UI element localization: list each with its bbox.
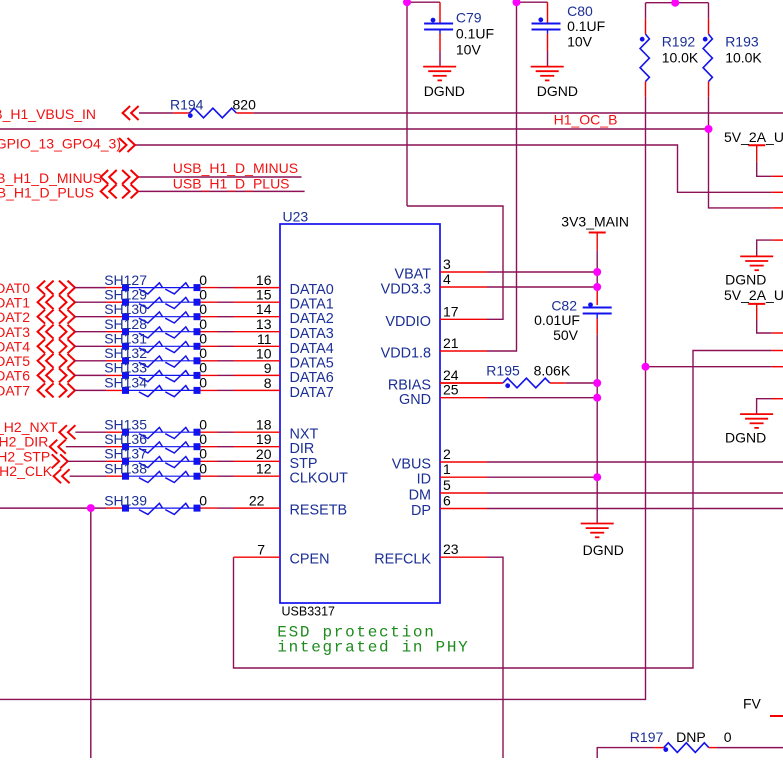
svg-text:DIR: DIR (290, 441, 315, 457)
svg-text:5V_2A_UP: 5V_2A_UP (724, 129, 783, 145)
wire R192 branch red tip (772, 366, 783, 368)
wire USB_H2_DAT0 to shunt (75, 287, 107, 289)
svg-text:0: 0 (199, 446, 207, 462)
svg-text:0: 0 (199, 345, 207, 361)
junction dot VBAT rail (593, 268, 601, 276)
power 3V3_MAIN (589, 232, 606, 234)
svg-text:0: 0 (199, 272, 207, 288)
wire GPIO net red tip at right edge (772, 191, 783, 193)
svg-text:DGND: DGND (725, 272, 766, 288)
ground DGND (C80) (531, 66, 564, 68)
resistor SH130 0 ohm shunt (106, 312, 234, 323)
wire DGND lead #2 from right edge (757, 399, 772, 414)
svg-text:DAT2: DAT2 (0, 309, 30, 325)
svg-text:2: 2 (443, 446, 451, 462)
junction dot C80 tap (513, 0, 521, 6)
svg-text:SH127: SH127 (104, 272, 147, 288)
svg-text:USB_H1_D_MINUS: USB_H1_D_MINUS (173, 160, 298, 176)
svg-text:R197: R197 (630, 729, 664, 745)
svg-text:R193: R193 (725, 33, 759, 49)
wire GND pin to rail (487, 397, 597, 399)
svg-text:R194: R194 (170, 97, 204, 113)
svg-text:6: 6 (443, 493, 451, 509)
junction dot R192 branch (642, 363, 650, 371)
svg-text:21: 21 (443, 335, 459, 351)
pin 12 stub (234, 475, 281, 477)
svg-text:DGND: DGND (725, 429, 766, 445)
svg-text:SH136: SH136 (104, 431, 147, 447)
svg-text:SH133: SH133 (104, 360, 147, 376)
junction dot VDD3.3 rail (593, 283, 601, 291)
node USB_H2_DAT7 port arrow (bidirectional) (38, 383, 46, 397)
svg-text:0: 0 (199, 375, 207, 391)
node USB_H1_D_MINUS port arrow (101, 170, 109, 184)
resistor SH136 0 ohm shunt (106, 442, 234, 453)
svg-text:DATA2: DATA2 (290, 311, 334, 327)
svg-text:USB_H2_CLK: USB_H2_CLK (0, 463, 53, 479)
wire USB_H2_DAT3 to shunt (75, 331, 107, 333)
svg-text:0: 0 (199, 360, 207, 376)
pin 5 stub (DM) (440, 492, 487, 494)
wire R193 net vertical x=708.5 to y=208 exit (709, 3, 772, 208)
wire VBAT to 3V3 rail (487, 271, 597, 273)
svg-text:integrated in PHY: integrated in PHY (277, 639, 469, 657)
svg-text:USB_H1_VBUS_IN: USB_H1_VBUS_IN (0, 106, 96, 122)
svg-text:10: 10 (256, 345, 272, 361)
pin 10 stub (234, 360, 281, 362)
svg-text:DATA0: DATA0 (290, 282, 334, 298)
wire USB_H2_DAT7 to shunt (75, 389, 107, 391)
svg-text:50V: 50V (553, 327, 579, 343)
svg-text:SH132: SH132 (104, 345, 147, 361)
power 5V_2A_U #1 (748, 144, 765, 146)
pin 9 stub (234, 374, 281, 376)
svg-text:0: 0 (199, 301, 207, 317)
pin 1 stub (ID) (440, 476, 487, 478)
svg-text:DGND: DGND (537, 83, 578, 99)
svg-text:DATA6: DATA6 (290, 370, 334, 386)
svg-text:0: 0 (199, 316, 207, 332)
resistor SH129 0 ohm shunt (106, 297, 234, 308)
node USB_H2_DAT3 port arrow (bidirectional) (38, 325, 46, 339)
svg-text:SH130: SH130 (104, 301, 147, 317)
capacitor C80 0.1UF 10V (547, 2, 549, 23)
wire DGND lead #2 red tip (772, 398, 783, 400)
svg-text:820: 820 (233, 97, 257, 113)
wire USB_H2_NXT to shunt (75, 431, 106, 433)
svg-text:5: 5 (443, 477, 451, 493)
pin 14 stub (234, 316, 281, 318)
resistor R192 10.0K (645, 19, 647, 34)
wire VDD3.3 to 3V3 rail (487, 286, 597, 288)
wire 5V_2A power drop #2 (757, 320, 772, 333)
wire RESETB branch down x=90.8 (90, 508, 92, 758)
svg-text:24: 24 (443, 367, 459, 383)
svg-text:DAT7: DAT7 (0, 383, 30, 399)
pin 25 stub (GND) (440, 397, 487, 399)
svg-text:USB_H1_D_PLUS: USB_H1_D_PLUS (0, 184, 94, 200)
node USB_H2_CLK port arrow (54, 469, 62, 483)
node USB_H2_DAT2 port arrow (bidirectional) (38, 310, 46, 324)
svg-text:DAT3: DAT3 (0, 324, 30, 340)
svg-text:DAT0: DAT0 (0, 280, 30, 296)
svg-text:H1_OC_B: H1_OC_B (554, 112, 618, 128)
svg-text:SH137: SH137 (104, 446, 147, 462)
node USB_H2_DAT5 port arrow (bidirectional) (38, 354, 46, 368)
resistor R193 10.0K (708, 19, 710, 34)
svg-text:3: 3 (443, 256, 451, 272)
svg-text:GND: GND (399, 392, 431, 408)
junction dot R193 / net B (705, 125, 713, 133)
svg-text:1: 1 (443, 461, 451, 477)
svg-text:0: 0 (199, 492, 207, 508)
node USB_H2_STP port arrow (52, 454, 60, 468)
wire RESETB from left edge (0, 507, 106, 509)
pin 16 stub (234, 287, 281, 289)
pin 18 stub (234, 431, 281, 433)
wire R197 right side to edge (717, 747, 783, 749)
svg-text:VDDIO: VDDIO (385, 314, 431, 330)
svg-text:12: 12 (256, 461, 272, 477)
svg-text:SH138: SH138 (104, 460, 147, 476)
pin 21 stub (VDD1.8) (440, 350, 487, 352)
resistor SH131 0 ohm shunt (106, 342, 234, 353)
wire CPEN net (234, 351, 772, 669)
pin 24 stub (RBIAS) (440, 382, 502, 384)
node USB_H2_DAT1 port arrow (bidirectional) (38, 295, 46, 309)
svg-text:ID: ID (417, 472, 431, 488)
svg-text:DAT5: DAT5 (0, 353, 30, 369)
wire DGND lead #1 from right edge (757, 240, 772, 256)
svg-text:22: 22 (249, 493, 265, 509)
node USB_H2_DAT0 port arrow (bidirectional) (38, 281, 46, 295)
wire CPEN red tip (772, 350, 783, 352)
wire 5V_2A power drop #1 (757, 162, 772, 177)
svg-text:10V: 10V (567, 34, 593, 50)
wire REFCLK down to bottom edge (487, 557, 503, 758)
wire USB_H2_DAT1 to shunt (75, 301, 107, 303)
pin 3 stub (VBAT) (440, 271, 487, 273)
junction dot RBIAS rail (593, 379, 601, 387)
resistor SH138 0 ohm shunt (106, 471, 234, 482)
pin 11 stub (234, 345, 281, 347)
svg-text:10V: 10V (456, 42, 482, 58)
svg-text:USB_H2_STP: USB_H2_STP (0, 448, 50, 464)
wire R192/R193 top bus (646, 0, 709, 3)
pin 8 stub (234, 389, 281, 391)
svg-text:0: 0 (199, 431, 207, 447)
svg-text:USB_H1_D_PLUS: USB_H1_D_PLUS (173, 175, 290, 191)
resistor R195 8.06K (440, 382, 503, 384)
wire USB_H2_CLK to shunt (70, 475, 106, 477)
svg-text:23: 23 (443, 541, 459, 557)
svg-text:VBAT: VBAT (394, 267, 431, 283)
wire USB_H2_STP to shunt (68, 460, 106, 462)
ground DGND right #2 (740, 413, 773, 415)
op-amp/IC U23 USB3317 body (280, 224, 440, 603)
svg-text:USB3317: USB3317 (282, 605, 336, 619)
ground DGND right #1 (740, 255, 773, 257)
resistor SH133 0 ohm shunt (106, 371, 234, 382)
svg-text:0.01UF: 0.01UF (534, 312, 580, 328)
svg-text:(GPIO_13_GPO4_3): (GPIO_13_GPO4_3) (0, 136, 121, 152)
wire net USB_H1_VBUS_IN / H1_OC_B (y=113) (139, 112, 173, 114)
pin 15 stub (234, 301, 281, 303)
svg-text:SH134: SH134 (104, 375, 147, 391)
wire USB_H2_DAT6 to shunt (75, 374, 107, 376)
ground DGND (under C82 rail) (581, 523, 614, 525)
resistor SH135 0 ohm shunt (106, 427, 234, 438)
wire net USB_H1_D_PLUS (139, 190, 305, 192)
svg-text:SH139: SH139 (104, 492, 147, 508)
resistor R194 820 (173, 112, 189, 114)
resistor SH139 0 ohm shunt (106, 503, 234, 514)
resistor SH132 0 ohm shunt (106, 356, 234, 367)
svg-text:0.1UF: 0.1UF (567, 18, 605, 34)
node USB_H1_D_PLUS port arrow (101, 184, 109, 198)
wire DGND lead #1 red tip (772, 239, 783, 241)
pin 7 stub (CPEN) (234, 556, 281, 558)
pin 2 stub (VBUS) (440, 461, 487, 463)
junction dot ID rail (593, 473, 601, 481)
svg-text:10.0K: 10.0K (662, 50, 699, 66)
svg-text:VBUS: VBUS (392, 457, 431, 473)
resistor R197 0 DNP (654, 747, 664, 749)
svg-text:0.1UF: 0.1UF (456, 26, 494, 42)
node USB_H2_DIR port arrow (50, 440, 58, 454)
pin 17 stub (VDDIO) (440, 318, 487, 320)
svg-text:CPEN: CPEN (290, 552, 330, 568)
wire VDDIO branch from C79 (407, 206, 503, 319)
pin 4 stub (VDD3.3) (440, 286, 487, 288)
pin 22 stub (234, 507, 281, 509)
svg-text:8: 8 (264, 375, 272, 391)
node USB_H2_NXT port arrow (59, 425, 67, 439)
wire USB_H2_DAT5 to shunt (75, 360, 107, 362)
wire USB_H2_DAT4 to shunt (75, 345, 107, 347)
svg-text:19: 19 (256, 431, 272, 447)
wire net GPIO_13_GPO4_3 (y=145) (135, 145, 772, 192)
svg-text:DM: DM (409, 488, 431, 504)
svg-text:DATA3: DATA3 (290, 326, 334, 342)
wire net unnamed (y=129) (0, 128, 709, 130)
svg-text:RBIAS: RBIAS (388, 378, 431, 394)
resistor SH128 0 ohm shunt (106, 327, 234, 338)
svg-text:DAT6: DAT6 (0, 368, 30, 384)
junction dot C79 tap (403, 0, 411, 6)
svg-text:0: 0 (199, 460, 207, 476)
svg-text:C80: C80 (567, 3, 593, 19)
svg-text:CLKOUT: CLKOUT (290, 471, 349, 487)
svg-text:14: 14 (256, 301, 272, 317)
svg-text:3V3_MAIN: 3V3_MAIN (561, 213, 629, 229)
wire C80 top branch (487, 0, 548, 351)
svg-text:9: 9 (264, 360, 272, 376)
svg-text:RESETB: RESETB (290, 503, 348, 519)
svg-text:8.06K: 8.06K (534, 362, 571, 378)
svg-text:7: 7 (257, 542, 265, 558)
svg-text:4: 4 (443, 271, 451, 287)
wire ID to rail (487, 476, 597, 478)
svg-text:DGND: DGND (424, 83, 465, 99)
junction RESETB net (87, 504, 95, 512)
svg-text:DGND: DGND (583, 542, 624, 558)
node USB_H1_VBUS_IN port arrow (123, 106, 131, 120)
wire 5V#2 red tip (772, 332, 783, 334)
svg-text:C82: C82 (551, 298, 577, 314)
node GPIO_13_GPO4_3 port arrow (119, 138, 127, 152)
junction dot GND rail (593, 394, 601, 402)
wire R197 net (bottom) (597, 748, 654, 758)
node USB_H2_DAT6 port arrow (bidirectional) (38, 368, 46, 382)
svg-text:DATA7: DATA7 (290, 385, 334, 401)
svg-text:U23: U23 (283, 209, 309, 225)
svg-text:R195: R195 (486, 362, 520, 378)
pin 6 stub (DP) (440, 508, 487, 510)
resistor SH137 0 ohm shunt (106, 457, 234, 468)
svg-text:STP: STP (290, 456, 318, 472)
svg-text:USB_H2_DIR: USB_H2_DIR (0, 434, 48, 450)
svg-text:VDD1.8: VDD1.8 (381, 346, 431, 362)
wire 3V3 rail vertical x=597 (maroon parts) (596, 250, 598, 523)
svg-text:VDD3.3: VDD3.3 (381, 282, 431, 298)
svg-text:DP: DP (411, 503, 431, 519)
wire C79 top branch (407, 0, 440, 206)
svg-text:0: 0 (724, 729, 732, 745)
node USB_H2_DAT4 port arrow (bidirectional) (38, 339, 46, 353)
svg-text:10.0K: 10.0K (725, 50, 762, 66)
power 5V_2A_U #2 (748, 303, 765, 305)
pin 19 stub (234, 446, 281, 448)
power FV (bottom right, clipped) (770, 715, 783, 717)
svg-text:25: 25 (443, 382, 459, 398)
svg-text:FV: FV (743, 696, 762, 712)
svg-text:13: 13 (256, 316, 272, 332)
capacitor C82 0.01UF 50V (596, 288, 598, 305)
svg-text:DNP: DNP (676, 729, 706, 745)
svg-text:REFCLK: REFCLK (374, 552, 431, 568)
svg-text:17: 17 (443, 303, 459, 319)
wire USB_H2_DAT2 to shunt (75, 316, 107, 318)
wire R192 branch to right edge (y=367) (646, 366, 772, 368)
resistor SH127 0 ohm shunt (106, 283, 234, 294)
pin 23 stub (REFCLK) (440, 556, 487, 558)
ground DGND (C79) (423, 66, 456, 68)
svg-text:DATA5: DATA5 (290, 355, 334, 371)
wire R192 net vertical x=645.5 down to y=699 and left (0, 3, 646, 700)
svg-text:C79: C79 (456, 10, 482, 26)
wire R193 exit red tip (772, 207, 783, 209)
wire net USB_H1_D_MINUS (138, 176, 302, 178)
wire RBIAS to rail (566, 382, 597, 384)
wire USB_H2_DIR to shunt (66, 446, 106, 448)
svg-text:16: 16 (256, 272, 272, 288)
wire DM to right edge (487, 492, 783, 494)
resistor SH134 0 ohm shunt (106, 386, 234, 397)
wire VBUS to right edge (487, 461, 783, 463)
svg-text:20: 20 (256, 446, 272, 462)
junction dot R192/R193 bus (671, 0, 679, 7)
pin 20 stub (234, 460, 281, 462)
wire 5V#1 red tip (772, 175, 783, 177)
svg-text:5V_2A_UP: 5V_2A_UP (724, 287, 783, 303)
wire DP to right edge (487, 508, 783, 510)
svg-text:SH128: SH128 (104, 316, 147, 332)
pin 13 stub (234, 331, 281, 333)
svg-text:R192: R192 (662, 33, 696, 49)
capacitor C79 0.1UF 10V (439, 2, 441, 23)
